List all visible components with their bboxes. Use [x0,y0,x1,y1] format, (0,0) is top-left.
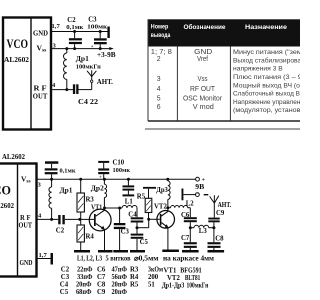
capacitor C8 [208,226,225,250]
svg-text:VT1: VT1 [91,205,103,212]
inductor L2 [168,200,194,217]
svg-text:(модулятор, установка: (модулятор, установка [233,107,300,114]
svg-text:OUT: OUT [33,92,48,101]
svg-text:AL2602: AL2602 [2,153,25,161]
inductor Dr1 (bottom) [49,179,73,221]
svg-text:5: 5 [157,95,161,102]
resistor R3 [77,178,94,220]
table header [151,23,288,39]
svg-text:C7: C7 [181,235,190,242]
svg-text:C8: C8 [215,236,224,243]
svg-text:BFG591: BFG591 [180,268,202,275]
svg-text:Минус питания ("земля"): Минус питания ("земля") [233,49,300,56]
svg-text:Выход стабилизированного: Выход стабилизированного [233,57,300,64]
svg-text:L1: L1 [125,199,134,206]
svg-text:AL2602: AL2602 [4,56,29,64]
svg-text:20пФ: 20пФ [76,281,92,288]
pin 1,7 GND wire [37,252,51,259]
capacitor C5 [131,228,149,250]
op-amp U2 VCO AL2602 block (clipped at left) [0,153,37,277]
svg-text:L1, L2, L3: L1, L2, L3 [77,255,102,262]
inductor Dr3 [156,178,170,210]
svg-text:47пФ: 47пФ [112,266,128,273]
svg-text:2: 2 [157,56,161,63]
inductor L3 [190,225,214,235]
svg-text:GND: GND [194,49,212,56]
svg-text:VT1: VT1 [164,268,177,275]
pin 1,7 GND wire [51,23,108,32]
capacitor C4 (bottom) [128,211,143,227]
svg-text:Мощный выход ВЧ (осн.): Мощный выход ВЧ (осн.) [233,82,300,89]
svg-text:C8: C8 [97,281,106,288]
parts list line L1-L3 [77,255,214,262]
svg-text:OSC Monitor: OSC Monitor [183,95,223,102]
svg-text:5 витков: 5 витков [106,255,131,262]
svg-text:56пФ: 56пФ [112,274,128,281]
svg-text:Др2: Др2 [91,186,105,193]
antenna ANT (bottom) [210,195,232,209]
parts list column C6-C9 [97,266,127,296]
power connector +9V [183,177,208,196]
svg-text:V mod: V mod [193,104,214,111]
svg-text:33пФ: 33пФ [77,274,93,281]
table frame [145,19,300,129]
parts list column C2-C5 [60,266,93,296]
ground bar (minus terminal) [182,189,184,201]
svg-text:R4: R4 [86,234,95,241]
capacitor C9 [208,203,225,228]
svg-text:VT2: VT2 [154,204,167,211]
capacitor C4 22 [73,84,99,106]
svg-text:C7: C7 [97,274,106,281]
antenna ANT (top) [87,70,113,89]
svg-text:4: 4 [157,86,161,93]
svg-text:Др1: Др1 [76,56,90,63]
svg-text:Vss: Vss [198,76,208,83]
svg-text:100мкГн: 100мкГн [187,283,209,290]
svg-text:GND: GND [33,29,48,38]
ground terminal bar [107,27,109,39]
svg-text:9В: 9В [195,184,205,191]
node C4/C5 junction and wire to VT2 base [136,218,160,229]
svg-text:20пФ: 20пФ [112,289,128,296]
svg-text:C2: C2 [56,228,65,235]
capacitor 0,1mk decoupling with ground [45,161,76,180]
parts list column VT1 VT2 Dr1-Dr3 [162,268,209,290]
inductor Dr1 100mkGn [64,47,102,91]
svg-text:+: + [91,44,94,50]
svg-text:+3-9В: +3-9В [97,52,116,59]
svg-text:C9: C9 [97,289,106,296]
svg-text:Напряжение управления: Напряжение управления [233,99,300,106]
inductor L1 [122,199,137,218]
svg-text:VCO: VCO [0,184,11,198]
svg-text:Др1: Др1 [60,188,74,195]
svg-text:АНТ.: АНТ. [218,202,232,209]
svg-text:1; 7; 8: 1; 7; 8 [151,49,172,56]
parts list column R3-R5 [130,266,163,288]
ground under R4 [74,250,90,253]
svg-text:Номер: Номер [151,24,169,31]
capacitor C7 [181,228,197,250]
svg-text:RF OUT: RF OUT [190,86,216,93]
svg-text:OUT: OUT [19,220,33,229]
svg-text:на каркасе 4мм: на каркасе 4мм [163,255,214,262]
svg-text:напряжения 3 В: напряжения 3 В [233,66,283,73]
svg-text:C3: C3 [61,274,70,281]
pin 3 Vss wire with +3-9V arrow [51,43,116,60]
svg-text:вывода: вывода [151,32,171,39]
svg-text:Назначение: Назначение [245,24,287,31]
svg-text:51: 51 [148,281,155,288]
svg-text:AL2602: AL2602 [0,202,14,210]
inductor Dr2 [91,178,107,208]
svg-text:C2: C2 [61,266,70,273]
svg-text:Др1-Др3: Др1-Др3 [162,283,185,290]
svg-text:C2: C2 [67,17,76,24]
svg-text:C10: C10 [113,160,125,167]
svg-text:АНТ.: АНТ. [97,78,113,86]
svg-text:C6: C6 [97,266,106,273]
svg-text:VT2: VT2 [167,275,180,282]
pin 4 RF OUT wire [37,213,95,220]
capacitor C10 100mk electrolytic with ground [98,160,130,181]
ground under C5 [130,250,145,253]
ground under VT1 emitter [98,250,113,253]
ground under C8 [208,250,225,253]
svg-text:6: 6 [157,104,161,111]
pin 3 rail wire [37,179,196,188]
ground terminal bar (pin 1,7) [51,253,54,265]
transistor VT1 [89,205,111,250]
svg-text:100мк: 100мк [87,24,107,31]
pin 4 RF OUT wire [51,82,73,90]
wire collector VT1 node row [103,207,122,210]
svg-text:Обозначение: Обозначение [184,23,226,31]
resistor R4 [77,219,94,250]
capacitor C6 [181,212,197,229]
svg-text:Плюс питания (3 – 9 В): Плюс питания (3 – 9 В) [233,74,300,81]
svg-text:R3: R3 [86,197,95,204]
svg-text:C4 22: C4 22 [78,99,99,106]
svg-text:+: + [99,175,102,181]
capacitor C2 0,1mk [66,17,83,50]
table column 3 descriptions [233,49,319,114]
svg-text:100мкГн: 100мкГн [76,64,101,71]
capacitor C2 (bottom, series) [56,215,65,235]
svg-text:R4: R4 [130,274,139,281]
op-amp U1 VCO AL2602 block [3,18,51,130]
svg-text:20пФ: 20пФ [112,281,128,288]
svg-text:3кОм: 3кОм [148,266,163,273]
svg-text:+: + [202,178,206,184]
ground under C7 [182,250,199,253]
svg-text:L3: L3 [199,228,208,235]
svg-text:Vref: Vref [197,56,208,63]
svg-text:Др3: Др3 [156,187,168,194]
transistor VT2 [154,204,175,250]
svg-text:3: 3 [157,76,161,83]
svg-text:R5: R5 [130,281,139,288]
svg-text:GND: GND [20,258,33,267]
svg-text:BLT81: BLT81 [185,275,201,282]
svg-text:C5: C5 [60,289,69,296]
svg-text:C3: C3 [88,17,97,24]
svg-text:R3: R3 [130,266,139,273]
svg-text:C9: C9 [216,210,225,217]
svg-text:C3: C3 [121,229,130,236]
svg-text:R5: R5 [137,193,146,200]
svg-text:0,1мк: 0,1мк [60,167,76,174]
svg-text:100мк: 100мк [113,167,131,174]
capacitor C3 100mk electrolytic [87,17,107,51]
decoupling capacitor to ground (unlabeled) [123,178,135,197]
svg-text:C5: C5 [140,239,149,246]
table column 1 pin numbers [151,49,172,111]
node R3/R4 junction [78,218,81,221]
capacitor C3 (bottom) [114,207,130,251]
svg-text:VCO: VCO [7,37,29,51]
ground under VT2 emitter [162,250,179,253]
svg-text:200: 200 [148,274,159,281]
svg-text:1,7: 1,7 [52,23,61,30]
svg-text:C4: C4 [60,281,69,288]
svg-text:⌀0,5мм: ⌀0,5мм [134,255,159,262]
ground under C3 [113,250,128,253]
svg-text:68пФ: 68пФ [76,289,92,296]
table column 2 pin names [183,49,223,111]
resistor R5 with ground above [137,187,156,219]
svg-text:Слаботочный выход ВЧ: Слаботочный выход ВЧ [233,91,300,98]
svg-text:22пФ: 22пФ [77,266,93,273]
